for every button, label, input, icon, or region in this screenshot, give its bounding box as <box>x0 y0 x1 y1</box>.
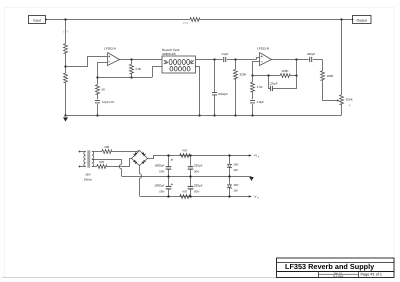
svg-text:4AB3C1B: 4AB3C1B <box>162 52 176 56</box>
svg-text:1.5K: 1.5K <box>257 85 263 89</box>
svg-text:470K: 470K <box>63 30 69 33</box>
svg-text:1W: 1W <box>233 189 238 193</box>
svg-text:.0022µF: .0022µF <box>217 92 228 96</box>
svg-text:1W: 1W <box>233 168 238 172</box>
svg-text:1000µF: 1000µF <box>154 163 164 167</box>
svg-text:Page #1 of 1: Page #1 of 1 <box>361 273 383 277</box>
svg-text:56: 56 <box>102 88 106 92</box>
svg-text:470K: 470K <box>183 22 189 25</box>
svg-text:65ma: 65ma <box>84 178 92 182</box>
svg-text:.082µF: .082µF <box>306 52 315 56</box>
svg-text:50V: 50V <box>159 169 164 173</box>
svg-text:50V: 50V <box>194 190 199 194</box>
svg-text:Rev 1.0: Rev 1.0 <box>334 272 343 275</box>
svg-text:250K: 250K <box>346 98 353 102</box>
svg-text:16V: 16V <box>233 183 238 187</box>
svg-text:100: 100 <box>104 145 109 149</box>
svg-text:470: 470 <box>182 189 187 193</box>
svg-text:120pF: 120pF <box>269 81 277 85</box>
svg-text:50V: 50V <box>194 169 199 173</box>
svg-text:+V: +V <box>254 154 258 158</box>
svg-text:220µF: 220µF <box>194 163 203 167</box>
svg-text:10µF N.P: 10µF N.P <box>102 100 114 104</box>
svg-text:100: 100 <box>99 160 104 164</box>
svg-text:100K: 100K <box>327 74 334 78</box>
svg-text:1.0µF: 1.0µF <box>257 100 265 104</box>
svg-text:16V: 16V <box>85 173 90 177</box>
svg-text:LF353 Reverb and Supply: LF353 Reverb and Supply <box>285 262 375 271</box>
svg-text:LF353-B: LF353-B <box>257 47 269 51</box>
svg-text:-V: -V <box>254 195 257 199</box>
svg-text:LF353-A: LF353-A <box>104 46 117 50</box>
svg-text:50V: 50V <box>159 190 164 194</box>
svg-text:Output: Output <box>357 18 368 22</box>
svg-text:Input: Input <box>33 18 41 22</box>
svg-text:.01µF: .01µF <box>221 52 229 56</box>
svg-text:16V: 16V <box>233 163 238 167</box>
svg-text:3.9K: 3.9K <box>135 67 141 71</box>
svg-text:220K: 220K <box>240 72 247 76</box>
svg-text:12-9-2009: 12-9-2009 <box>333 275 344 278</box>
svg-text:470: 470 <box>182 148 187 152</box>
svg-text:100K: 100K <box>281 69 288 73</box>
svg-text:220µF: 220µF <box>194 183 203 187</box>
svg-text:1000µF: 1000µF <box>154 183 164 187</box>
